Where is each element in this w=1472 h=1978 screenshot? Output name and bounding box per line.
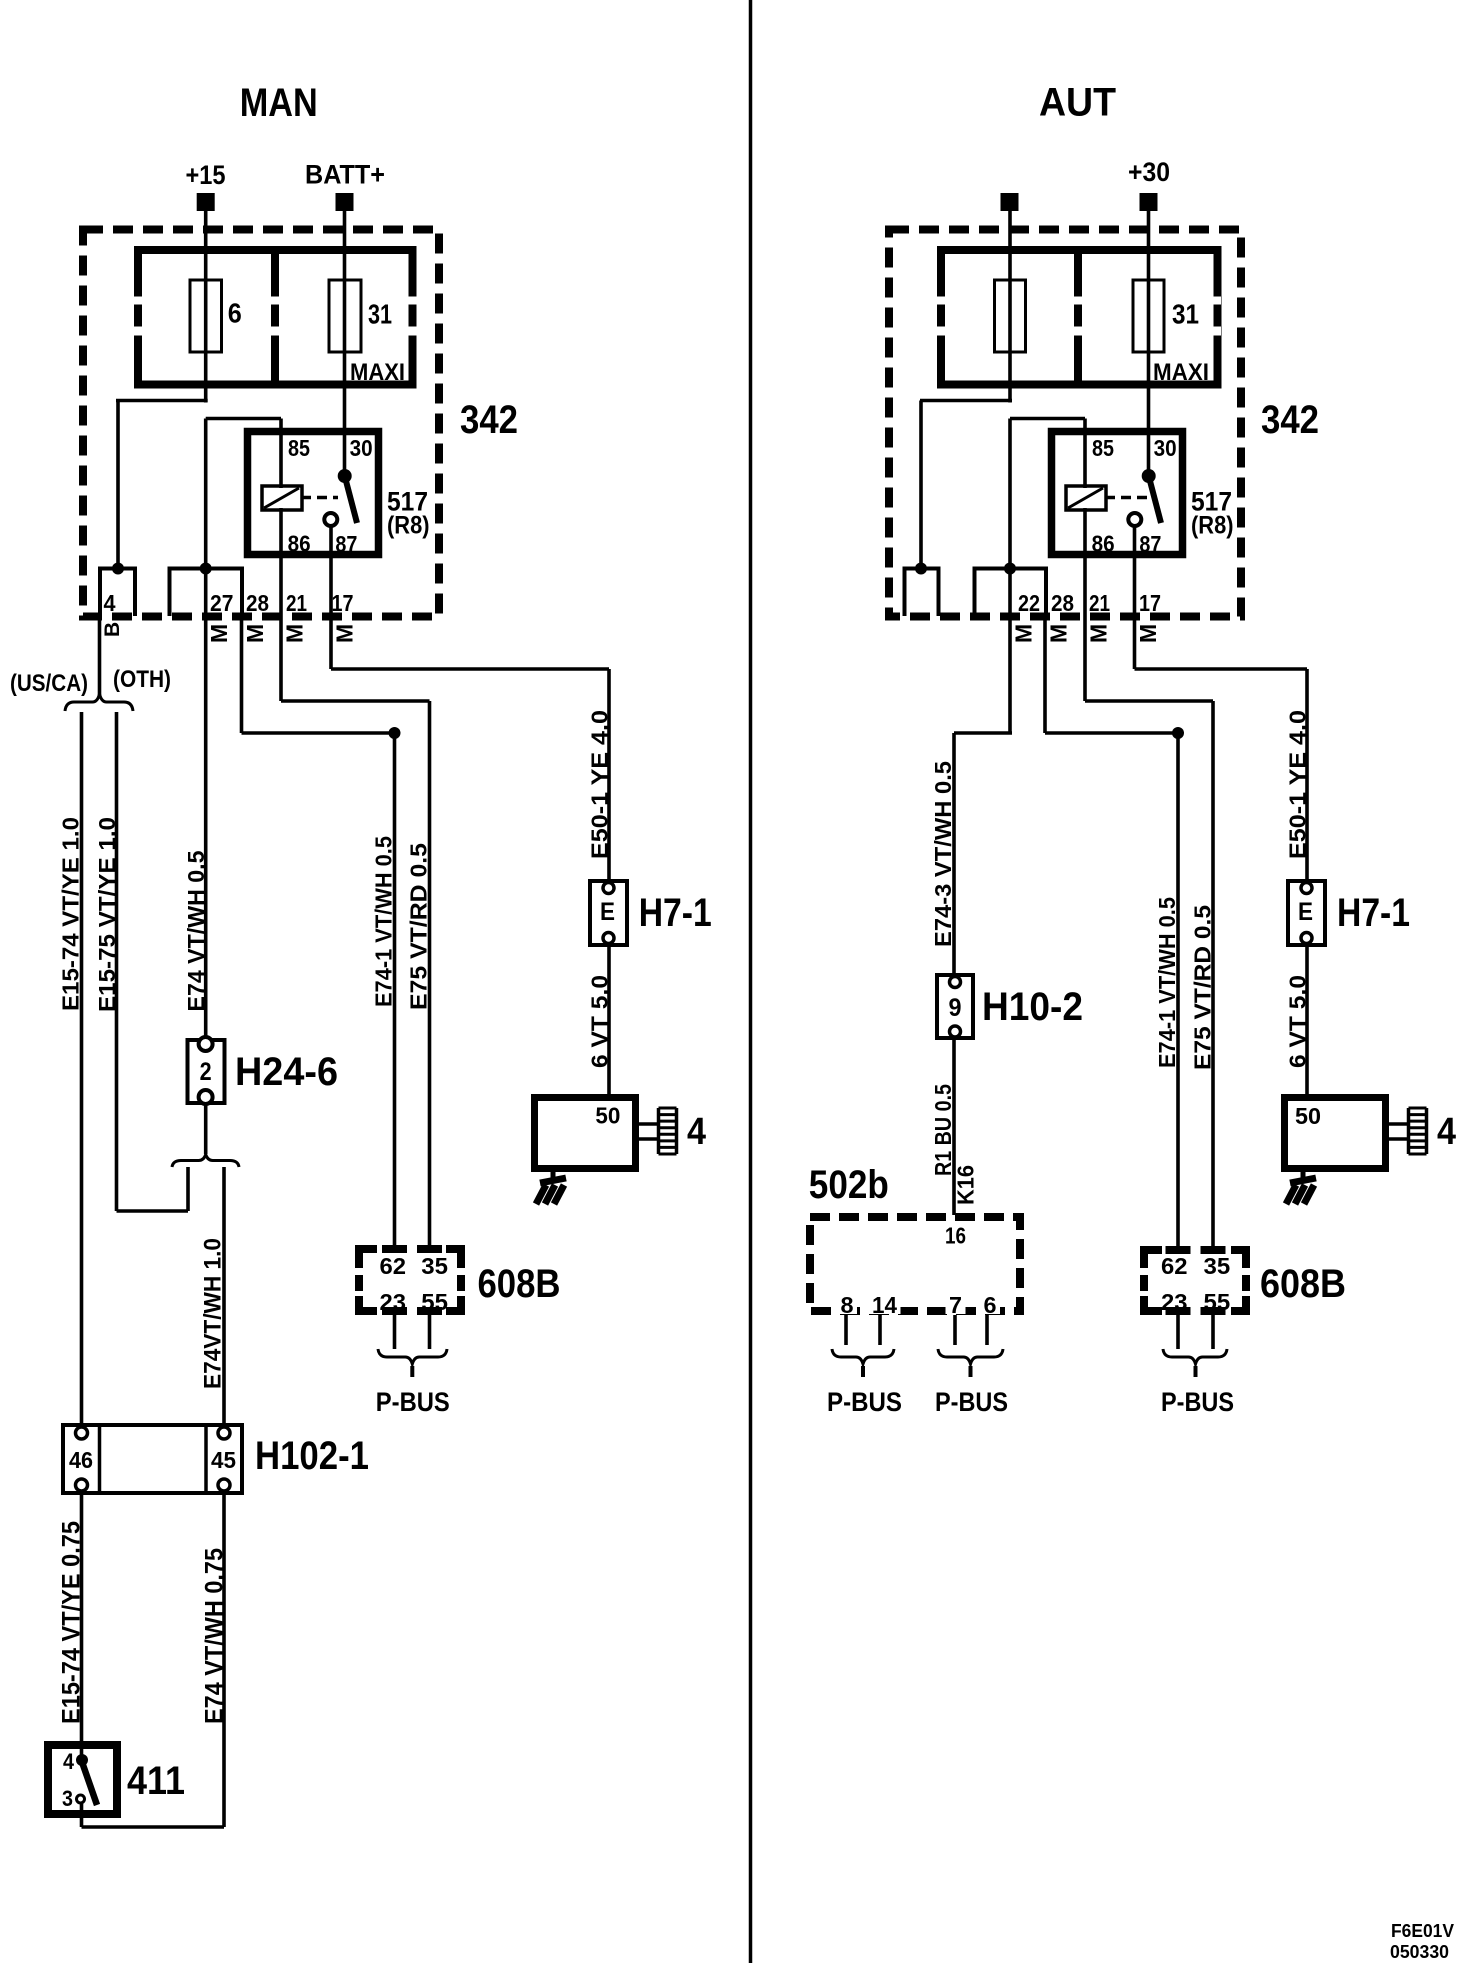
relay switch pivot node 30 AUT bbox=[1142, 469, 1156, 483]
svg-text:28: 28 bbox=[246, 590, 269, 616]
svg-text:(R8): (R8) bbox=[387, 512, 430, 540]
starter pin 50 label AUT bbox=[1295, 1103, 1321, 1129]
svg-text:45: 45 bbox=[211, 1447, 236, 1473]
wire 502b pin 7 stub bbox=[953, 1315, 957, 1345]
wire pin 45 down E74 0.75 bbox=[222, 1491, 226, 1827]
title MAN bbox=[240, 81, 318, 125]
svg-text:3: 3 bbox=[62, 1786, 73, 1811]
wire relay 87 to pin 17 AUT bbox=[1133, 527, 1137, 669]
svg-text:E: E bbox=[1298, 898, 1313, 926]
pin 62 label AUT bbox=[1161, 1253, 1188, 1279]
pin 27 label bbox=[210, 590, 233, 616]
wire pin 46 down E15-74 0.75 bbox=[80, 1491, 84, 1760]
wire into relay coil 85 bbox=[279, 419, 283, 489]
wire relay 87 to pin 17 bbox=[329, 527, 333, 669]
svg-text:50: 50 bbox=[1295, 1103, 1321, 1129]
starter pin 50 label bbox=[595, 1102, 620, 1128]
svg-text:MAXI: MAXI bbox=[350, 359, 405, 386]
pin 8 label bbox=[837, 1292, 857, 1318]
svg-text:28: 28 bbox=[1051, 590, 1074, 616]
svg-text:E15-74 VT/YE 1.0: E15-74 VT/YE 1.0 bbox=[58, 817, 84, 1011]
pin 22 label bbox=[1018, 590, 1040, 616]
svg-text:4: 4 bbox=[687, 1111, 706, 1153]
label E74 VT/WH 0.5 bbox=[183, 850, 209, 1011]
svg-text:H7-1: H7-1 bbox=[639, 891, 712, 935]
svg-text:E74-1 VT/WH 0.5: E74-1 VT/WH 0.5 bbox=[1154, 897, 1180, 1068]
pin 45 label bbox=[211, 1447, 236, 1473]
svg-text:H7-1: H7-1 bbox=[1337, 891, 1410, 935]
svg-text:M: M bbox=[1135, 624, 1161, 643]
svg-text:342: 342 bbox=[1261, 398, 1319, 442]
wire 608B pin 23 stub bbox=[393, 1311, 397, 1349]
wire E74-1 VT/WH 0.5 AUT bbox=[1176, 733, 1180, 1249]
pin 17 M letter bbox=[332, 624, 358, 643]
pin 14 label bbox=[869, 1292, 901, 1318]
connector box pins 27 28 bbox=[170, 569, 243, 617]
relay contact 87 node AUT bbox=[1128, 513, 1141, 526]
drawing date 050330 bbox=[1390, 1942, 1449, 1962]
svg-text:E74-3 VT/WH 0.5: E74-3 VT/WH 0.5 bbox=[930, 761, 956, 947]
label E15-74 VT/YE 1.0 bbox=[58, 817, 84, 1011]
wire H24-6 down bbox=[204, 1104, 208, 1154]
svg-text:23: 23 bbox=[1161, 1289, 1188, 1315]
fuse 6 value bbox=[228, 298, 242, 329]
junction node first box AUT bbox=[915, 563, 927, 575]
unit 342 dashed enclosure bbox=[83, 230, 439, 617]
fuse 31 symbol AUT bbox=[1133, 280, 1164, 352]
relay pin 85 label bbox=[288, 435, 310, 461]
first connector box AUT bbox=[905, 569, 939, 617]
wire pin 28 down bbox=[240, 614, 244, 733]
relay coil-switch dashed link AUT bbox=[1105, 496, 1148, 500]
label E15-74 VT/YE 0.75 bbox=[58, 1521, 86, 1724]
svg-text:E74-1 VT/WH 0.5: E74-1 VT/WH 0.5 bbox=[371, 836, 397, 1007]
relay switch arm bbox=[345, 476, 357, 523]
wire splice left branch horizontal bbox=[117, 1209, 189, 1213]
label MAXI AUT bbox=[1153, 359, 1209, 386]
label 608B AUT bbox=[1260, 1262, 1346, 1306]
P-BUS tick 502b left bbox=[861, 1366, 865, 1377]
pin 21 M letter bbox=[282, 624, 308, 643]
connector H7-1 pin E letter bbox=[600, 898, 615, 926]
wire pin 21 horizontal AUT bbox=[1085, 699, 1213, 703]
fuse 31 value AUT bbox=[1172, 299, 1199, 330]
drawing number F6E01V bbox=[1391, 1921, 1454, 1941]
pin 27 M letter bbox=[206, 624, 232, 643]
svg-text:608B: 608B bbox=[478, 1262, 561, 1306]
svg-text:342: 342 bbox=[460, 398, 518, 442]
label (OTH) bbox=[113, 666, 171, 693]
svg-text:85: 85 bbox=[1092, 435, 1114, 461]
relay pin 30 label bbox=[350, 435, 373, 461]
wire into relay coil 85 AUT bbox=[1083, 419, 1087, 489]
svg-text:21: 21 bbox=[1089, 590, 1110, 616]
unit 608B dashed box AUT bbox=[1140, 1248, 1250, 1313]
svg-text:H10-2: H10-2 bbox=[982, 985, 1083, 1029]
svg-text:14: 14 bbox=[872, 1292, 897, 1318]
svg-text:27: 27 bbox=[210, 590, 233, 616]
label E74-3 VT/WH 0.5 bbox=[930, 761, 956, 947]
svg-text:2: 2 bbox=[200, 1058, 212, 1086]
power terminal +15 bbox=[197, 193, 215, 211]
svg-text:50: 50 bbox=[595, 1102, 620, 1128]
label 411 bbox=[127, 1759, 185, 1803]
P-BUS tick MAN bbox=[410, 1366, 414, 1377]
pin 17 M letter AUT bbox=[1135, 624, 1161, 643]
wire +30 through fuse 31 to relay 30 bbox=[1147, 211, 1151, 476]
pin 28 M letter AUT bbox=[1046, 624, 1072, 643]
connector H10-2 pin 9 label bbox=[949, 994, 962, 1022]
label E15-75 VT/YE 1.0 bbox=[94, 817, 120, 1012]
svg-text:E15-75 VT/YE 1.0: E15-75 VT/YE 1.0 bbox=[94, 817, 120, 1012]
label 502b bbox=[809, 1163, 889, 1207]
label H102-1 bbox=[255, 1434, 369, 1478]
svg-text:4: 4 bbox=[63, 1749, 75, 1774]
starter connector lines bbox=[639, 1124, 658, 1139]
svg-text:87: 87 bbox=[1139, 531, 1161, 557]
wire pin 17 horizontal AUT bbox=[1135, 667, 1308, 671]
relay pin 87 label bbox=[335, 531, 357, 557]
fuse 31 symbol bbox=[329, 280, 361, 352]
pin 17 label bbox=[332, 590, 354, 616]
svg-text:6: 6 bbox=[228, 298, 242, 329]
svg-text:P-BUS: P-BUS bbox=[1161, 1387, 1234, 1417]
power terminal +30 bbox=[1140, 193, 1158, 211]
switch 411 box bbox=[48, 1745, 117, 1814]
label P-BUS 608B AUT bbox=[1161, 1387, 1234, 1417]
svg-text:M: M bbox=[1086, 624, 1112, 643]
svg-text:R1 BU 0.5: R1 BU 0.5 bbox=[930, 1084, 956, 1176]
wire relay 86 to pin 21 AUT bbox=[1083, 508, 1087, 701]
svg-text:P-BUS: P-BUS bbox=[827, 1387, 902, 1417]
pin 16 label bbox=[945, 1223, 966, 1249]
P-BUS tick 502b right bbox=[969, 1366, 973, 1377]
svg-text:+15: +15 bbox=[186, 160, 226, 190]
relay pin 85 label AUT bbox=[1092, 435, 1114, 461]
svg-text:55: 55 bbox=[421, 1289, 448, 1315]
svg-text:M: M bbox=[206, 624, 232, 643]
label E74-1 VT/WH 0.5 bbox=[371, 836, 397, 1007]
wire bottom return horizontal bbox=[82, 1825, 225, 1829]
P-BUS brace 502b right bbox=[938, 1349, 1003, 1364]
svg-text:4: 4 bbox=[1437, 1111, 1456, 1153]
svg-text:4: 4 bbox=[104, 590, 116, 616]
label (R8) AUT bbox=[1191, 512, 1234, 540]
label H24-6 bbox=[235, 1050, 338, 1094]
switch 411 pin 4 label bbox=[63, 1749, 75, 1774]
power terminal +30 label bbox=[1128, 157, 1170, 187]
connector H24-6 pin 2 label bbox=[200, 1058, 212, 1086]
wire BATT+ through fuse 31 to relay 30 bbox=[343, 211, 347, 476]
wire relay 85 to pin 27 vertical bbox=[204, 419, 208, 1038]
label 6 VT 5.0 AUT bbox=[1284, 975, 1310, 1068]
label MAXI bbox=[350, 359, 405, 386]
svg-text:86: 86 bbox=[288, 531, 311, 557]
label E74 VT/WH 0.75 bbox=[201, 1548, 229, 1724]
connector box pin 4 (B) bbox=[100, 569, 135, 617]
svg-text:85: 85 bbox=[288, 435, 310, 461]
P-BUS tick 608B AUT bbox=[1194, 1366, 1198, 1377]
svg-text:87: 87 bbox=[335, 531, 357, 557]
svg-text:62: 62 bbox=[380, 1253, 407, 1279]
divider line bbox=[749, 0, 753, 1963]
svg-text:BATT+: BATT+ bbox=[305, 160, 385, 190]
relay switch pivot node 30 bbox=[338, 469, 352, 483]
wire 6 VT 5.0 bbox=[607, 944, 611, 1097]
wire E15-75 VT/YE 1.0 bbox=[115, 712, 119, 1211]
svg-text:E50-1 YE 4.0: E50-1 YE 4.0 bbox=[1284, 710, 1310, 859]
wire 502b pin 6 stub bbox=[985, 1315, 989, 1345]
svg-text:502b: 502b bbox=[809, 1163, 889, 1207]
wire 502b pin 8 stub bbox=[844, 1315, 848, 1345]
svg-text:H102-1: H102-1 bbox=[255, 1434, 369, 1478]
unit 608B dashed box bbox=[355, 1247, 465, 1313]
pin 28 label AUT bbox=[1051, 590, 1074, 616]
wire 608B pin 55 stub AUT bbox=[1211, 1311, 1215, 1349]
label E75 VT/RD 0.5 bbox=[405, 843, 431, 1010]
unit 502b dashed box bbox=[810, 1217, 1020, 1311]
svg-text:E75 VT/RD 0.5: E75 VT/RD 0.5 bbox=[405, 843, 431, 1010]
pin B letter bbox=[101, 622, 124, 637]
label R1 BU 0.5 bbox=[930, 1084, 956, 1176]
pin 23 label AUT bbox=[1158, 1289, 1192, 1315]
svg-text:E15-74 VT/YE 0.75: E15-74 VT/YE 0.75 bbox=[58, 1521, 86, 1724]
wire E75 VT/RD 0.5 bbox=[428, 701, 432, 1249]
starter component 4 box AUT bbox=[1285, 1098, 1386, 1169]
svg-text:K16: K16 bbox=[953, 1165, 979, 1205]
relay pin 86 label AUT bbox=[1092, 531, 1115, 557]
pin 23 label bbox=[376, 1289, 410, 1315]
pin 22 M letter bbox=[1011, 624, 1037, 643]
junction node pin22 box AUT bbox=[1004, 563, 1016, 575]
svg-text:P-BUS: P-BUS bbox=[376, 1387, 450, 1417]
wire R1 BU 0.5 bbox=[952, 1037, 956, 1215]
label H10-2 bbox=[982, 985, 1083, 1029]
pin 21 label bbox=[286, 590, 307, 616]
switch 411 pin 3 label bbox=[62, 1786, 73, 1811]
label 517 bbox=[387, 487, 428, 517]
svg-text:411: 411 bbox=[127, 1759, 185, 1803]
svg-text:30: 30 bbox=[1154, 435, 1177, 461]
svg-text:M: M bbox=[242, 624, 268, 643]
pin 4 label bbox=[104, 590, 116, 616]
pin 35 label bbox=[421, 1253, 448, 1279]
wire E50-1 YE 4.0 bbox=[607, 669, 611, 882]
svg-text:M: M bbox=[282, 624, 308, 643]
fuse holder box bbox=[129, 250, 418, 385]
wire E50-1 YE 4.0 AUT bbox=[1305, 669, 1309, 882]
svg-text:608B: 608B bbox=[1260, 1262, 1346, 1306]
P-BUS brace MAN bbox=[378, 1349, 447, 1364]
connector H7-1 bbox=[590, 881, 627, 945]
label 6 VT 5.0 bbox=[586, 975, 612, 1068]
switch 411 arm bbox=[82, 1762, 97, 1805]
svg-text:8: 8 bbox=[841, 1292, 854, 1318]
fuse left symbol AUT bbox=[995, 280, 1026, 352]
relay coil AUT bbox=[1066, 486, 1106, 510]
wire pin 17 horizontal bbox=[331, 667, 609, 671]
svg-text:M: M bbox=[1011, 624, 1037, 643]
svg-text:35: 35 bbox=[421, 1253, 448, 1279]
connector box pins 22 28 AUT bbox=[975, 569, 1047, 617]
wire horizontal to relay 85 AUT bbox=[1010, 417, 1085, 421]
splice brace under H24-6 bbox=[172, 1155, 239, 1168]
wire pin 28 horizontal bbox=[242, 731, 395, 735]
relay contact 87 node bbox=[324, 513, 337, 526]
relay coil bbox=[262, 486, 302, 510]
svg-text:31: 31 bbox=[1172, 299, 1199, 330]
connector H10-2 bbox=[937, 975, 973, 1038]
relay coil-switch dashed link bbox=[301, 496, 338, 500]
pin 46 label bbox=[69, 1447, 93, 1473]
svg-text:6: 6 bbox=[984, 1292, 997, 1318]
P-BUS brace 502b left bbox=[832, 1349, 894, 1364]
label E74-1 VT/WH 0.5 AUT bbox=[1154, 897, 1180, 1068]
svg-text:B: B bbox=[101, 622, 124, 637]
label K16 bbox=[953, 1165, 979, 1205]
label P-BUS 502b right bbox=[935, 1387, 1008, 1417]
svg-text:16: 16 bbox=[945, 1223, 966, 1249]
svg-text:E75 VT/RD 0.5: E75 VT/RD 0.5 bbox=[1190, 905, 1216, 1070]
wire left terminal through fuse bbox=[1008, 211, 1012, 403]
svg-text:E74 VT/WH 0.75: E74 VT/WH 0.75 bbox=[201, 1548, 229, 1724]
relay 517 (R8) box bbox=[248, 432, 379, 555]
svg-text:E: E bbox=[600, 898, 615, 926]
wire pin 21 horizontal bbox=[281, 699, 430, 703]
relay pin 30 label AUT bbox=[1154, 435, 1177, 461]
fuse holder box AUT bbox=[932, 250, 1221, 385]
junction node on pin4 box bbox=[112, 563, 124, 575]
wire 411 pin3 down bbox=[80, 1804, 84, 1827]
ground AUT bbox=[1286, 1168, 1316, 1204]
wire down to first connector AUT bbox=[919, 401, 923, 569]
junction node at 608B-62 wire bbox=[389, 727, 401, 739]
pin 6 label bbox=[980, 1292, 1000, 1318]
label P-BUS MAN bbox=[376, 1387, 450, 1417]
wire horizontal to relay 85 bbox=[206, 417, 281, 421]
connector 4 hatched block AUT bbox=[1409, 1108, 1427, 1154]
wire relay85 to pin 22 vertical AUT bbox=[1008, 419, 1012, 734]
label H7-1 bbox=[639, 891, 712, 935]
connector H24-6 bbox=[188, 1037, 225, 1104]
ground bbox=[536, 1168, 566, 1204]
label E50-1 YE 4.0 AUT bbox=[1284, 710, 1310, 859]
label 4 bbox=[687, 1111, 706, 1153]
svg-text:17: 17 bbox=[332, 590, 354, 616]
svg-text:F6E01V: F6E01V bbox=[1391, 1921, 1454, 1941]
pin 62 label bbox=[380, 1253, 407, 1279]
label E75 VT/RD 0.5 AUT bbox=[1190, 905, 1216, 1070]
pin 35 label AUT bbox=[1204, 1253, 1231, 1279]
power terminal BATT+ bbox=[336, 193, 354, 211]
label E50-1 YE 4.0 bbox=[586, 710, 612, 859]
svg-text:E74 VT/WH 0.5: E74 VT/WH 0.5 bbox=[183, 850, 209, 1011]
relay 517 (R8) box AUT bbox=[1052, 432, 1183, 555]
pin 17 label AUT bbox=[1139, 590, 1161, 616]
junction node at 608B-62 wire AUT bbox=[1172, 727, 1184, 739]
label P-BUS 502b left bbox=[827, 1387, 902, 1417]
svg-text:6 VT 5.0: 6 VT 5.0 bbox=[586, 975, 612, 1068]
power terminal +15 label bbox=[186, 160, 226, 190]
connector H7-1 pin E letter AUT bbox=[1298, 898, 1313, 926]
wire 6 VT 5.0 AUT bbox=[1305, 944, 1309, 1097]
pin 55 label AUT bbox=[1200, 1289, 1234, 1315]
wire +15 to fuse 6 down to junction bbox=[204, 211, 208, 403]
wire E15-74 VT/YE 1.0 bbox=[80, 712, 84, 1427]
pin 28 label bbox=[246, 590, 269, 616]
svg-text:MAXI: MAXI bbox=[1153, 359, 1209, 386]
pin 55 label bbox=[418, 1289, 452, 1315]
svg-text:(R8): (R8) bbox=[1191, 512, 1234, 540]
svg-text:35: 35 bbox=[1204, 1253, 1231, 1279]
power terminal BATT+ label bbox=[305, 160, 385, 190]
pin 21 M letter AUT bbox=[1086, 624, 1112, 643]
svg-text:6 VT 5.0: 6 VT 5.0 bbox=[1284, 975, 1310, 1068]
relay switch arm AUT bbox=[1149, 476, 1161, 523]
splice brace US/CA-OTH bbox=[65, 694, 133, 711]
wire pin 28 horizontal AUT bbox=[1045, 731, 1178, 735]
title AUT bbox=[1039, 81, 1116, 125]
svg-text:62: 62 bbox=[1161, 1253, 1188, 1279]
svg-text:E74VT/WH 1.0: E74VT/WH 1.0 bbox=[200, 1238, 227, 1389]
svg-text:31: 31 bbox=[368, 299, 392, 330]
svg-text:M: M bbox=[1046, 624, 1072, 643]
label 517 AUT bbox=[1191, 487, 1232, 517]
junction node on pin27 box bbox=[200, 563, 212, 575]
pin 21 label AUT bbox=[1089, 590, 1110, 616]
svg-text:86: 86 bbox=[1092, 531, 1115, 557]
switch 411 pin 4 node bbox=[76, 1754, 88, 1766]
connector H7-1 AUT bbox=[1288, 881, 1325, 945]
relay pin 87 label AUT bbox=[1139, 531, 1161, 557]
switch 411 pin 3 node bbox=[77, 1795, 85, 1803]
label (US/CA) bbox=[10, 670, 88, 697]
svg-text:E50-1 YE 4.0: E50-1 YE 4.0 bbox=[586, 710, 612, 859]
svg-text:P-BUS: P-BUS bbox=[935, 1387, 1008, 1417]
power terminal left (unlabeled) bbox=[1001, 193, 1019, 211]
wire 502b pin 14 stub bbox=[878, 1315, 882, 1345]
label (R8) bbox=[387, 512, 430, 540]
svg-text:21: 21 bbox=[286, 590, 307, 616]
fuse 31 value bbox=[368, 299, 392, 330]
label H7-1 AUT bbox=[1337, 891, 1410, 935]
wire pin B down bbox=[98, 616, 102, 697]
svg-text:+30: +30 bbox=[1128, 157, 1170, 187]
wire splice left branch down bbox=[186, 1167, 190, 1211]
wire E75 VT/RD 0.5 AUT bbox=[1211, 701, 1215, 1249]
wire E74-1 VT/WH 0.5 bbox=[393, 733, 397, 1249]
wire 608B pin 55 stub bbox=[428, 1311, 432, 1349]
svg-text:AUT: AUT bbox=[1039, 81, 1116, 125]
wire pin 28 down AUT bbox=[1043, 614, 1047, 733]
unit 342 dashed enclosure AUT bbox=[889, 230, 1241, 617]
wire pin 22 horizontal bbox=[954, 731, 1012, 735]
svg-text:7: 7 bbox=[949, 1292, 962, 1318]
P-BUS brace 608B AUT bbox=[1163, 1349, 1227, 1364]
svg-text:46: 46 bbox=[69, 1447, 93, 1473]
wire fuse6 output horizontal bbox=[116, 399, 208, 403]
svg-text:050330: 050330 bbox=[1390, 1942, 1449, 1962]
wire 608B pin 23 stub AUT bbox=[1176, 1311, 1180, 1349]
svg-text:H24-6: H24-6 bbox=[235, 1050, 338, 1094]
relay pin 86 label bbox=[288, 531, 311, 557]
svg-text:9: 9 bbox=[949, 994, 962, 1022]
pin 7 label bbox=[946, 1292, 966, 1318]
label 4 AUT bbox=[1437, 1111, 1456, 1153]
fuse 6 symbol bbox=[190, 280, 222, 352]
label E74VT/WH 1.0 bbox=[200, 1238, 227, 1389]
wire down to connector pin 4 bbox=[116, 401, 120, 569]
